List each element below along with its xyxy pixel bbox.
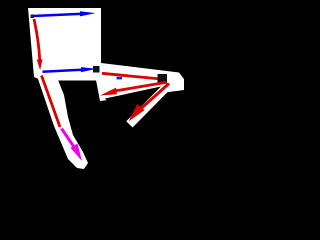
small blue tick below edge BC: [117, 77, 123, 80]
wire: blue edge N2 to B: [43, 70, 82, 72]
white main blob (left rectangle region): [28, 8, 103, 81]
wire: red edge C back to D (return, arrow to left): [116, 82, 167, 91]
white casing along descending edge C to E: [129, 83, 170, 125]
node N1 dot: [31, 15, 35, 19]
node C black square: [158, 74, 168, 84]
wire: red edge N1 to N2 (down): [34, 19, 40, 60]
node B black square: [93, 66, 100, 73]
wire: red edge B to C (upper beak line): [102, 73, 166, 79]
white casing along lower-left edge and magenta edge: [37, 72, 88, 169]
wire: red edge C down to E (descending, arrow at bottom): [141, 84, 169, 109]
wire: magenta edge N5 to N6: [62, 129, 75, 148]
wire: red edge N2 down to N5: [42, 76, 61, 128]
black notch between return edge and descending edge: [105, 87, 161, 122]
white beak band (right wedge): [96, 63, 184, 101]
wire: blue edge N1 to A: [33, 14, 80, 16]
